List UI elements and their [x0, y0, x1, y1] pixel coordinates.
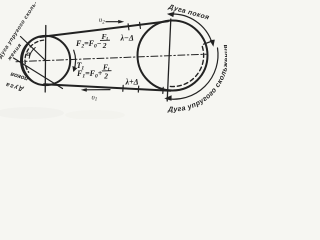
scan smudge bottom mid	[65, 110, 125, 120]
boundary line small pulley lower-left	[14, 58, 63, 89]
pokoya arrow right head	[210, 40, 215, 47]
torque arrow T1 arc	[74, 50, 76, 71]
pokoya arrow left head	[167, 12, 175, 17]
pulley large (driven)	[138, 21, 208, 91]
radial line small pulley up-left	[21, 37, 46, 61]
radial line small pulley vertical	[44, 26, 47, 93]
svg-text:F1=F0+: F1=F0+	[76, 69, 103, 80]
skolzh arrow left head	[164, 95, 171, 101]
radial tick big pulley right	[204, 41, 214, 45]
belt wrap arc small pulley	[22, 39, 34, 82]
v2 arrowhead	[118, 20, 124, 24]
label "Duga pokoya" top right	[167, 3, 210, 21]
svg-text:α: α	[27, 50, 31, 58]
centerline dash-dot	[16, 54, 206, 62]
svg-text:λ+Δ: λ+Δ	[125, 78, 139, 87]
tick bottom belt 1	[122, 85, 124, 91]
tick bottom belt 2	[137, 86, 139, 92]
T1 arrowhead	[72, 66, 77, 72]
pulley small (driver)	[21, 36, 70, 85]
tick top belt 2	[139, 22, 142, 28]
svg-text:2: 2	[102, 41, 107, 50]
radial line big pulley vertical	[167, 19, 171, 101]
v2 arrow shaft	[106, 21, 121, 23]
v1 arrow shaft	[84, 89, 110, 91]
scan smudge bottom left	[0, 107, 64, 119]
svg-text:2: 2	[103, 71, 108, 80]
dashed creep arc small pulley	[25, 40, 44, 72]
label "Duga pokoya" bottom left rotated upside down	[4, 70, 29, 92]
v1 arrowhead	[81, 88, 87, 92]
angle alpha arc	[29, 48, 35, 59]
tick bottom belt 3	[162, 87, 164, 93]
svg-text:λ−Δ: λ−Δ	[120, 34, 134, 43]
belt top run	[40, 21, 168, 37]
arc arrow "Duga pokoya" top right	[169, 14, 212, 43]
formula F2 = F0 - Ft/2	[27, 16, 139, 103]
tick top belt 1	[127, 24, 130, 30]
svg-text:F2=F0−: F2=F0−	[75, 39, 102, 50]
arc arrow "Duga uprugogo skolzheniya" bottom right	[167, 48, 219, 99]
belt bottom run	[44, 84, 171, 91]
label "Duga uprugogo skol-zheniya" top left rotated	[0, 0, 39, 62]
dashed creep arc big pulley	[169, 47, 204, 87]
